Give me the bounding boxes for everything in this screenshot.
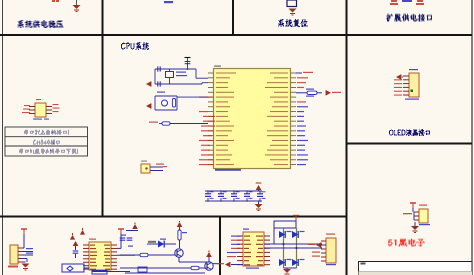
reset label bbox=[157, 92, 165, 93]
ch340 right wires bbox=[117, 229, 135, 255]
power arrow caps bbox=[256, 183, 262, 191]
transistor Q2 bbox=[120, 251, 213, 271]
reset button S1 bbox=[287, 0, 297, 7]
power arrow crystal bbox=[146, 81, 151, 86]
panel divider horizontal y143 right bbox=[346, 143, 472, 145]
table row CH340接口 bbox=[33, 140, 60, 145]
title OLED液晶接口 bbox=[389, 129, 430, 136]
power pin fragment P1 bbox=[390, 0, 398, 5]
capacitor C12 bbox=[73, 241, 79, 258]
bottom long wire bbox=[125, 267, 205, 273]
function table box bbox=[5, 127, 88, 156]
panel divider vertical x233 top bbox=[232, 0, 234, 35]
oled below label bbox=[405, 99, 419, 100]
CPU refdes U? bbox=[214, 66, 221, 67]
resistor R3 bbox=[177, 221, 187, 248]
driver IC U4 bbox=[237, 232, 270, 266]
panel divider vertical x346 bbox=[346, 0, 348, 275]
buzzer LS1 bbox=[141, 161, 167, 174]
table row 串口2（上位机接口） bbox=[24, 130, 69, 135]
vcc T sensor bbox=[410, 203, 416, 212]
CPU pin stubs bbox=[208, 73, 296, 165]
title 系统复位 bbox=[278, 19, 308, 27]
jp labels bbox=[312, 252, 320, 257]
title 系统供电稳压 bbox=[18, 20, 64, 28]
USB connector J1 bbox=[8, 245, 22, 268]
ground usb bbox=[22, 262, 30, 270]
pull resistor R9 bbox=[296, 89, 322, 97]
ground bridge bbox=[283, 268, 297, 275]
CPU part number STC89C52RC bbox=[215, 169, 241, 171]
CH340 IC U3 bbox=[83, 242, 117, 270]
OLED connector J2 bbox=[403, 73, 419, 97]
ground sensor bbox=[411, 222, 419, 233]
oled pin labels bbox=[394, 79, 402, 95]
bridge diodes D2-D5 bbox=[279, 231, 305, 266]
power arrows ch340 bbox=[70, 228, 85, 240]
sensor U5 bbox=[414, 209, 428, 223]
arrow oled bbox=[396, 74, 403, 79]
capacitor C5 vertical bbox=[185, 57, 191, 70]
bridge mid wires bbox=[264, 243, 322, 249]
power arrow driver bbox=[217, 262, 243, 267]
CPU right pin labels bbox=[296, 72, 313, 165]
driver refdes bbox=[243, 229, 249, 230]
oled mark bbox=[411, 90, 414, 93]
output connector JP1 bbox=[321, 234, 336, 266]
decoupling capacitors C7-C11 bbox=[205, 190, 266, 202]
CPU IC U1 body bbox=[214, 69, 291, 169]
panel divider horizontal y216 bbox=[0, 216, 347, 218]
q2 label bbox=[213, 263, 220, 264]
reset RC circuit C6 R1 bbox=[155, 96, 208, 110]
CPU pin names bbox=[216, 73, 288, 166]
sensor left label bbox=[403, 213, 412, 214]
ground caps bbox=[255, 201, 263, 211]
usb wires bbox=[22, 248, 33, 262]
bridge rails bbox=[274, 228, 297, 268]
ground reset bbox=[289, 9, 297, 16]
power pin fragment P2 bbox=[416, 0, 424, 5]
panel divider horizontal y35 bbox=[0, 34, 472, 36]
net label fragment bbox=[164, 1, 173, 3]
capacitor fragment C-top bbox=[52, 0, 59, 2]
panel divider vertical x220 bottom bbox=[219, 216, 221, 275]
regulator value label bbox=[33, 119, 49, 120]
sensor refdes bbox=[419, 205, 427, 206]
sheet border left bbox=[2, 0, 4, 275]
CPU left pin labels bbox=[199, 97, 215, 166]
title 扩展供电接口 bbox=[386, 14, 432, 22]
arrow jp bbox=[308, 242, 326, 247]
power arrow right bbox=[326, 90, 341, 95]
power arrow reset bbox=[146, 103, 151, 108]
caps C13 C14 bbox=[120, 223, 138, 247]
voltage regulator U2 bbox=[22, 99, 60, 117]
CH340 refdes bbox=[89, 239, 96, 240]
bridge top loop bbox=[274, 221, 296, 228]
VCC T usb bbox=[21, 229, 27, 248]
crystal X2 box bbox=[62, 264, 89, 272]
ground top-left bbox=[73, 0, 81, 12]
transistor Q1 bbox=[120, 249, 210, 262]
driver left labels bbox=[227, 236, 241, 258]
power T bridge bbox=[293, 216, 299, 222]
title CPU系统 bbox=[121, 42, 149, 50]
resistor R2 row bbox=[149, 122, 208, 126]
sheet border right bbox=[471, 0, 473, 275]
net label fragment VCC bbox=[402, 0, 412, 2]
table row 串口1（蓝牙&转串口下载） bbox=[19, 149, 78, 154]
panel divider vertical x102 bbox=[102, 0, 104, 216]
diode D1 bbox=[147, 239, 176, 248]
oled refdes bbox=[409, 69, 418, 70]
title block bbox=[359, 262, 473, 275]
crystal Y1 circuit bbox=[155, 66, 208, 86]
title 51黑电子 bbox=[388, 239, 425, 247]
bottom wires ch340 bbox=[92, 271, 130, 275]
driver bottom label bbox=[246, 268, 259, 269]
sensor value bbox=[419, 224, 430, 225]
